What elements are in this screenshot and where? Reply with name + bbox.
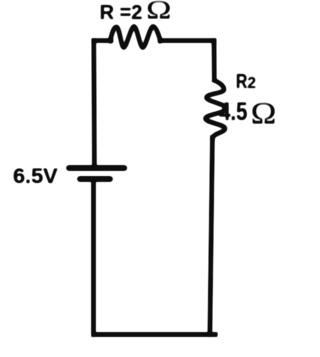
- label resistor R1 value: R =2 Ω: [100, 0, 172, 24]
- svg-text:Ω: Ω: [146, 0, 171, 24]
- wire top-left segment: corner to resistor R1: [94, 38, 111, 42]
- wire top-right segment: resistor R1 to top-right corner: [160, 41, 214, 43]
- wire bottom: bottom-left corner to bottom-right end: [94, 332, 216, 336]
- label battery value 6.5V: [13, 163, 58, 188]
- battery V1 (6.5V cell): [69, 168, 124, 179]
- wire left upper: top-left corner down to battery positive plate: [92, 41, 97, 166]
- label resistor R2 designator: [236, 70, 256, 92]
- wire left lower: battery negative plate down to bottom-left corner: [91, 179, 95, 335]
- resistor R1 zigzag: [110, 27, 161, 48]
- wire right upper: top-right corner down to resistor R2: [212, 41, 217, 79]
- svg-text:6.5V: 6.5V: [13, 163, 58, 188]
- svg-text:4.5: 4.5: [219, 98, 247, 126]
- label resistor R2 value: 4.5 Ω: [219, 97, 276, 131]
- wire right lower: resistor R2 down to bottom-right corner: [210, 138, 213, 335]
- resistor R2 vertical squiggle: [206, 81, 227, 139]
- svg-text:R =2: R =2: [100, 2, 143, 24]
- svg-text:R: R: [236, 70, 247, 92]
- svg-text:Ω: Ω: [251, 97, 277, 131]
- svg-text:2: 2: [247, 75, 256, 92]
